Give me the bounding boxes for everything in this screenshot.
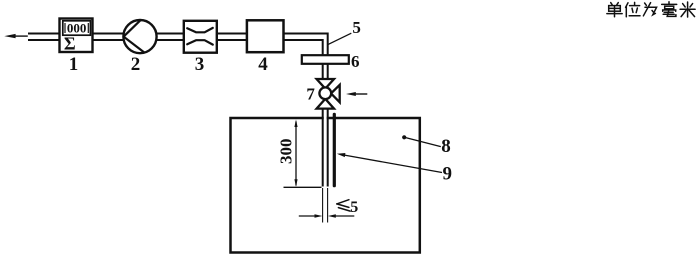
svg-text:9: 9	[442, 164, 452, 185]
leader line for label 5 (pipe corner)	[328, 33, 351, 44]
dimension &le;5 at probe tip	[299, 188, 355, 223]
char wei4 (position)	[626, 2, 640, 16]
flange 6 (wide plate on vertical pipe)	[302, 55, 349, 64]
svg-text:8: 8	[441, 136, 451, 157]
gas meter U1 (counter box with 000 and sigma)	[60, 19, 93, 53]
svg-text:7: 7	[306, 85, 315, 104]
char dan	[607, 3, 622, 17]
wire: exhaust arrow at far left	[4, 34, 28, 38]
flow meter 3 (venturi in box)	[184, 21, 217, 53]
pump 2 (circle with chords)	[123, 20, 156, 53]
char mi (meter)	[680, 2, 695, 17]
leader arrow for label 9 (points to probe)	[337, 153, 442, 173]
wire: horizontal pipe (double line) from arrow to down-corner	[28, 34, 328, 58]
wire: sampling probe pipe from valve down into chamber	[323, 107, 328, 187]
dimension 300 (vertical)	[284, 120, 322, 188]
svg-text:Σ: Σ	[64, 33, 76, 53]
inlet arrow into valve 7	[346, 92, 367, 96]
note text: units in millimeters (hand-drawn CJK glyphs)	[607, 2, 695, 17]
thermocouple probe 9 (thick line in chamber)	[333, 114, 336, 185]
char hao (milli)	[662, 2, 677, 17]
char wei2 (for)	[643, 3, 656, 16]
svg-text:2: 2	[131, 54, 141, 75]
svg-text:4: 4	[258, 54, 268, 75]
three-way valve 7	[317, 79, 340, 109]
component box 4	[247, 20, 284, 52]
svg-text:5: 5	[352, 18, 361, 37]
svg-text:6: 6	[351, 52, 360, 71]
svg-text:1: 1	[69, 54, 79, 75]
leader dot and line for label 8	[402, 135, 441, 146]
svg-text:5: 5	[350, 199, 358, 216]
chamber 8 (large rectangle tank)	[231, 118, 420, 253]
svg-text:3: 3	[195, 54, 205, 75]
dimension text lessequal 5	[337, 200, 350, 211]
wire: vertical pipe between flange 6 and valve 7	[323, 62, 328, 80]
svg-text:300: 300	[276, 138, 295, 164]
